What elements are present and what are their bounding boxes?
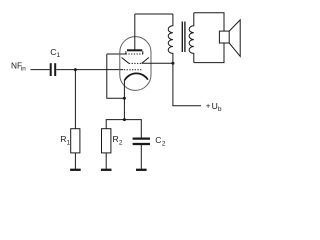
speaker LS1 (219, 20, 240, 57)
tube grid g3 dashed with end ticks (126, 51, 144, 54)
wire cathode lead down (123, 80, 125, 120)
wire g3 loop: left vertical and bottom to cathode (107, 54, 125, 98)
ground below R1 (70, 169, 81, 171)
transformer T1 secondary winding (189, 13, 194, 63)
resistor R1 (71, 129, 80, 153)
svg-text:in: in (21, 66, 26, 73)
node junction dot g3/cathode (123, 97, 126, 100)
wire junction down to R1 (74, 70, 76, 129)
label R2 (113, 134, 123, 147)
tube anode plate bar (127, 49, 142, 51)
svg-text:b: b (218, 106, 222, 113)
wire R2/C2 rail (106, 120, 141, 138)
label C1 (50, 47, 60, 59)
svg-text:U: U (212, 101, 218, 111)
wire B+ down and right to +Ub (173, 63, 201, 106)
svg-text:2: 2 (162, 140, 166, 147)
ground below C2 (136, 169, 147, 171)
wire anode top horizontal to transformer (135, 13, 173, 15)
label R1 (60, 134, 70, 147)
ground below R2 (101, 169, 112, 171)
wire C1 to grid g1 (56, 69, 123, 71)
wire R2 to ground (105, 153, 107, 169)
wire g3 lead (107, 53, 126, 55)
label C2 (155, 135, 166, 147)
node NF_in label (11, 61, 26, 73)
svg-text:+: + (206, 102, 211, 111)
wire g2 lead to B+ node (142, 62, 173, 64)
tube beam plate left diagonal (122, 58, 129, 64)
tube cathode arc (125, 73, 148, 80)
wire NF_in to C1 (31, 69, 50, 71)
svg-text:R: R (113, 134, 119, 144)
capacitor C2 (133, 139, 150, 144)
capacitor C1 (51, 63, 56, 76)
tube beam plate right diagonal (142, 58, 149, 64)
svg-text:1: 1 (67, 139, 71, 146)
svg-text:R: R (60, 134, 66, 144)
node +Ub label (206, 101, 222, 113)
wire R1 to ground (74, 153, 76, 169)
wire secondary top to speaker (194, 13, 224, 31)
wire C2 to ground (140, 145, 142, 169)
node junction dot input/R1 (74, 68, 77, 71)
svg-text:2: 2 (119, 139, 123, 146)
transformer T1 primary winding (168, 14, 173, 63)
wire anode lead up (134, 14, 136, 50)
wire secondary bottom to speaker (194, 43, 224, 63)
transformer T1 core (182, 22, 185, 53)
svg-text:C: C (155, 135, 161, 145)
node junction dot cathode/R2C2 rail (123, 118, 126, 121)
tube grid g1 dashed (124, 69, 142, 71)
svg-text:1: 1 (57, 52, 61, 59)
tube grid g2 dashed (129, 62, 142, 64)
tube U1 envelope (120, 37, 151, 91)
node junction dot g2/B+ (171, 62, 174, 65)
resistor R2 (102, 129, 111, 153)
